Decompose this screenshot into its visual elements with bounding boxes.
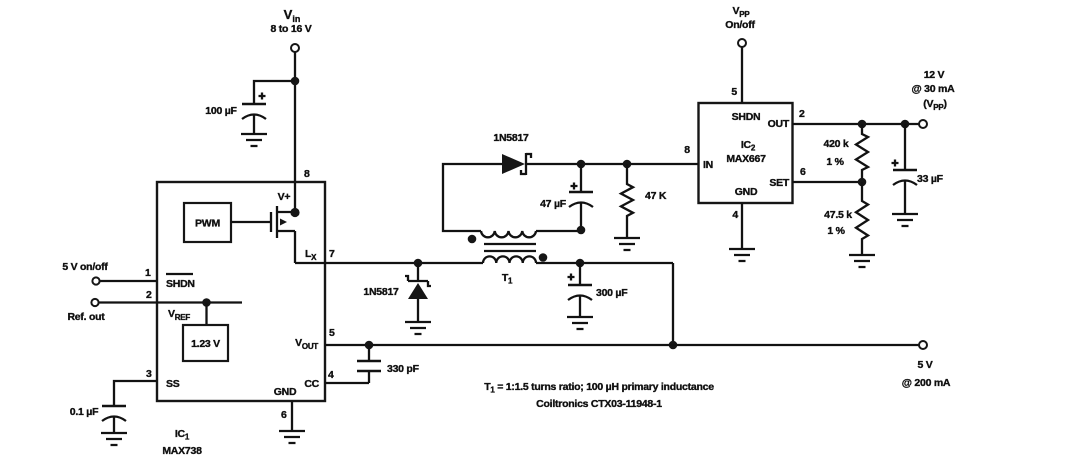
svg-text:8 to 16 V: 8 to 16 V	[271, 23, 312, 35]
wire Vout 5V rail	[325, 344, 919, 346]
svg-text:330 pF: 330 pF	[387, 363, 420, 375]
node T1 secondary phase dot	[468, 235, 477, 244]
capacitor C 33uF	[892, 124, 944, 214]
capacitor C 47uF	[540, 164, 593, 229]
svg-text:8: 8	[684, 144, 690, 156]
terminal 5V out	[919, 341, 927, 349]
diode D2 1N5817 catch	[363, 263, 431, 322]
wire OUT line	[793, 123, 920, 125]
label Vpp On/off	[725, 5, 755, 31]
node SET junction	[858, 178, 867, 187]
svg-text:IN: IN	[703, 159, 713, 171]
svg-text:Vin: Vin	[284, 7, 301, 24]
svg-text:8: 8	[304, 168, 310, 180]
IC U1 MAX738 body	[157, 182, 325, 401]
capacitor C 100uF	[205, 93, 266, 135]
wire LX line	[295, 262, 483, 264]
wire Vin to C 100uF	[254, 81, 295, 104]
svg-text:3: 3	[146, 368, 152, 380]
svg-text:5: 5	[731, 86, 737, 98]
svg-text:V+: V+	[278, 191, 291, 203]
wire T1 primary right	[536, 262, 673, 264]
svg-text:2: 2	[146, 289, 152, 301]
svg-text:GND: GND	[274, 386, 297, 398]
svg-text:1.23 V: 1.23 V	[191, 338, 220, 350]
wire CC to 330pF	[325, 382, 369, 384]
node V+ junction	[290, 208, 299, 217]
IC U2 MAX667 body	[699, 103, 793, 203]
capacitor C 330pF	[357, 345, 420, 383]
wire SET line	[793, 181, 863, 183]
svg-text:(VPP): (VPP)	[923, 98, 946, 112]
svg-text:OUT: OUT	[768, 118, 790, 130]
wire pin3 SS	[114, 381, 157, 406]
svg-text:1: 1	[145, 267, 151, 279]
node 47uF junction	[577, 160, 586, 169]
wire T1 secondary right	[536, 230, 581, 232]
ref block 1.23 V	[183, 325, 228, 361]
svg-text:On/off: On/off	[725, 19, 755, 31]
label SHDN with overline	[166, 274, 195, 290]
svg-text:T1: T1	[502, 272, 513, 286]
svg-text:MAX667: MAX667	[726, 153, 766, 165]
ground under IC1	[279, 431, 305, 443]
svg-text:4: 4	[328, 369, 334, 381]
label 5 V output	[902, 359, 951, 389]
terminal 12V out	[919, 120, 927, 128]
ground under 300uF	[567, 317, 593, 329]
resistor R 47K	[621, 164, 667, 238]
svg-text:SS: SS	[166, 378, 180, 390]
svg-text:4: 4	[732, 209, 738, 221]
wire pin4 GND	[741, 203, 743, 249]
svg-text:VPP: VPP	[733, 5, 751, 19]
wire GND pin6	[291, 401, 293, 431]
node LX diode junction	[414, 259, 423, 268]
svg-text:SHDN: SHDN	[166, 278, 195, 290]
node 420k junction	[858, 120, 867, 129]
svg-text:33 µF: 33 µF	[917, 173, 944, 185]
node Vin junction	[291, 77, 300, 86]
svg-text:0.1 µF: 0.1 µF	[70, 406, 99, 418]
pwm block PWM	[184, 203, 231, 242]
wire PWM to gate	[231, 221, 271, 223]
wire output node down to 5V rail	[672, 263, 674, 345]
svg-text:5 V on/off: 5 V on/off	[62, 261, 108, 273]
node VREF junction	[202, 298, 211, 307]
resistor R 47.5k	[824, 182, 868, 255]
svg-text:CC: CC	[304, 378, 319, 390]
svg-text:47 K: 47 K	[645, 190, 667, 202]
wire pin5 SHDN	[741, 47, 743, 103]
node 47uF bottom junction	[577, 226, 586, 235]
svg-text:T1 = 1:1.5 turns ratio; 100 µH: T1 = 1:1.5 turns ratio; 100 µH primary i…	[484, 381, 714, 395]
svg-text:420 k: 420 k	[823, 138, 848, 150]
node 33uF junction	[901, 120, 910, 129]
IC U2 labels	[703, 111, 790, 198]
ground under 33uF	[892, 214, 918, 226]
svg-text:LX: LX	[305, 248, 317, 262]
transformer T1	[481, 231, 536, 286]
ground under IC2	[729, 249, 755, 261]
capacitor C 300uF	[568, 263, 629, 317]
wire pin1 SHDN input	[100, 280, 157, 282]
svg-text:@ 200 mA: @ 200 mA	[902, 377, 951, 389]
capacitor C 0.1uF	[70, 406, 126, 433]
svg-text:IC1: IC1	[175, 428, 190, 442]
ground under 0.1uF	[101, 433, 127, 445]
svg-text:5: 5	[329, 327, 335, 339]
wire source to LX	[294, 231, 296, 263]
svg-text:47.5 k: 47.5 k	[824, 209, 852, 221]
resistor R 420k	[823, 124, 868, 182]
svg-text:Coiltronics CTX03-11948-1: Coiltronics CTX03-11948-1	[536, 398, 662, 410]
terminal Ref out	[91, 299, 98, 306]
svg-text:1 %: 1 %	[827, 225, 845, 237]
ground under 47.5k	[849, 255, 875, 267]
node T1 primary phase dot	[539, 253, 548, 262]
svg-text:GND: GND	[735, 186, 758, 198]
wire Vin vertical to V+	[294, 52, 296, 212]
svg-text:@ 30 mA: @ 30 mA	[912, 83, 956, 95]
node junction on 5V rail	[669, 341, 678, 350]
terminal Vin	[291, 44, 299, 52]
ground under 100uF	[241, 134, 267, 146]
svg-text:7: 7	[329, 248, 335, 260]
svg-text:SHDN: SHDN	[732, 111, 761, 123]
svg-text:1N5817: 1N5817	[363, 286, 399, 298]
wire pin2 VREF	[99, 301, 242, 303]
ground under 47K	[614, 238, 640, 250]
svg-text:Ref. out: Ref. out	[67, 311, 105, 323]
svg-text:12 V: 12 V	[924, 69, 945, 81]
svg-text:IC2: IC2	[741, 139, 756, 153]
diode D1 1N5817 rectifier	[493, 132, 531, 175]
svg-text:6: 6	[281, 409, 287, 421]
node Vin label	[271, 7, 312, 35]
svg-text:6: 6	[800, 166, 806, 178]
node 5V output node	[576, 259, 585, 268]
svg-text:47 µF: 47 µF	[540, 198, 567, 210]
svg-text:100 µF: 100 µF	[205, 105, 237, 117]
svg-text:2: 2	[799, 108, 805, 120]
transistor Q1 internal MOSFET	[271, 206, 295, 238]
terminal Vpp on/off	[738, 39, 746, 47]
IC U1 name label	[162, 428, 202, 457]
terminal 5V on/off	[92, 277, 99, 284]
svg-text:1N5817: 1N5817	[493, 132, 529, 144]
node 47K junction	[623, 160, 632, 169]
label 12 V output	[912, 69, 956, 112]
svg-text:300 µF: 300 µF	[596, 287, 628, 299]
wire D1 cathode line to IN	[526, 163, 699, 165]
ground under D2	[405, 322, 431, 334]
svg-text:MAX738: MAX738	[162, 445, 202, 457]
svg-text:5 V: 5 V	[917, 359, 932, 371]
svg-text:VREF: VREF	[168, 308, 190, 322]
svg-text:PWM: PWM	[195, 218, 220, 230]
svg-text:SET: SET	[769, 177, 790, 189]
note T1 transformer spec	[484, 381, 714, 410]
svg-text:1 %: 1 %	[826, 156, 844, 168]
wire VREF to 1.23V	[205, 303, 207, 326]
wire T1 secondary left up	[443, 164, 503, 231]
svg-text:VOUT: VOUT	[295, 337, 318, 351]
node 330pF junction	[365, 341, 374, 350]
